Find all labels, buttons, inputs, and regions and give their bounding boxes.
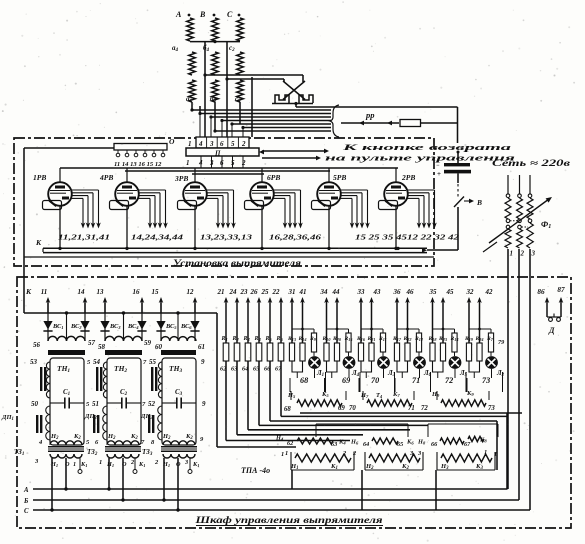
- rheostat arrow: [489, 199, 549, 243]
- svg-text:11: 11: [41, 288, 48, 296]
- svg-text:22: 22: [272, 288, 281, 296]
- coil winding phase C: [237, 18, 244, 41]
- svg-text:2: 2: [130, 459, 134, 466]
- svg-text:1: 1: [285, 450, 288, 457]
- wire bundle 5: [232, 123, 331, 125]
- svg-text:Н6: Н6: [350, 439, 359, 446]
- svg-text:ВС4: ВС4: [127, 323, 139, 330]
- relay coil H3 K3: [436, 452, 438, 470]
- transformer ТН3 body: [162, 358, 196, 445]
- svg-text:69: 69: [338, 405, 345, 412]
- svg-text:68: 68: [300, 376, 308, 385]
- svg-text:К: К: [25, 287, 32, 296]
- tube 2РВ: [384, 168, 408, 249]
- arrows group transformers: [47, 300, 49, 313]
- rheostat F1 mid terminals: [506, 219, 510, 223]
- wire relay right 2: [496, 421, 498, 470]
- resistor tall R<tspan font-size="5.0" baseline-shift="-18%">14</tspan>: [452, 333, 457, 352]
- wire bundle 6: [243, 127, 331, 129]
- svg-text:5РВ: 5РВ: [333, 173, 346, 182]
- lamp Л3: [382, 352, 384, 356]
- secondary coil TH2: [105, 336, 142, 341]
- arrows channel 6: [468, 300, 470, 343]
- resistor R<tspan font-size="5.0" baseline-shift="-18%">24</tspan>: [477, 343, 482, 361]
- svg-text:R14: R14: [450, 336, 459, 342]
- bus line C: [33, 509, 530, 511]
- coil ТЗ3: [163, 454, 195, 458]
- center tap stubs: [66, 313, 68, 341]
- svg-text:73: 73: [488, 405, 495, 412]
- svg-text:Шкаф управления выпрямителя: Шкаф управления выпрямителя: [194, 515, 382, 526]
- socket 1РВ: [43, 201, 62, 210]
- coil c3: [237, 80, 244, 102]
- svg-text:14,24,34,44: 14,24,34,44: [131, 233, 183, 242]
- wire switch down: [457, 207, 459, 250]
- resistor PP box: [400, 120, 421, 127]
- svg-text:К4: К4: [338, 439, 346, 446]
- wire vertical c to strip: [226, 42, 228, 137]
- svg-text:65: 65: [397, 441, 403, 448]
- wire bundle stub c: [239, 102, 241, 124]
- svg-text:25: 25: [261, 288, 270, 296]
- svg-text:К: К: [35, 238, 42, 247]
- resistor R<tspan font-size="5.0" baseline-shift="-18%">16</tspan>: [358, 343, 363, 361]
- top link channel 6: [469, 328, 491, 330]
- tube 5РВ: [317, 168, 341, 249]
- svg-text:2РВ: 2РВ: [401, 173, 415, 182]
- svg-text:67: 67: [464, 441, 471, 448]
- svg-text:13: 13: [97, 288, 105, 296]
- svg-text:6: 6: [220, 140, 224, 148]
- svg-text:26: 26: [250, 288, 259, 296]
- rheostat F1 lower resistors: [505, 229, 511, 248]
- svg-text:ТПА -4о: ТПА -4о: [241, 466, 270, 475]
- resistor R<tspan font-size="5.0" baseline-shift="-18%">19</tspan>: [466, 343, 471, 361]
- core bar TH3 top: [161, 350, 196, 355]
- top link channel 1: [292, 328, 314, 330]
- arrow terminal 2x 3: [247, 300, 249, 343]
- coil ТЗ2: [107, 454, 139, 458]
- wire bundle 2: [200, 113, 331, 115]
- resistor R1: [223, 343, 229, 361]
- bottom bracket channel 1: [292, 361, 303, 372]
- wire rail link: [196, 312, 217, 314]
- transformer ТН2 body: [107, 358, 141, 445]
- svg-text:70: 70: [371, 376, 379, 385]
- socket 5РВ: [312, 201, 331, 210]
- svg-text:71: 71: [408, 405, 415, 412]
- transformer ТЗ3 core: [161, 446, 197, 452]
- svg-text:13,23,33,13: 13,23,33,13: [200, 233, 252, 242]
- svg-text:86: 86: [537, 288, 545, 296]
- wires ТЗ to bus: [51, 458, 53, 510]
- wire capacitor to switch: [457, 173, 459, 183]
- arrows channel 5: [432, 300, 434, 343]
- svg-text:57: 57: [88, 339, 96, 347]
- svg-text:41: 41: [299, 288, 307, 296]
- resistor R4: [256, 343, 262, 361]
- svg-text:R7: R7: [486, 336, 494, 342]
- svg-text:R17: R17: [392, 336, 402, 342]
- top link channel 4: [397, 328, 419, 330]
- svg-text:К6: К6: [406, 439, 414, 446]
- bus bar cathode: [43, 247, 427, 249]
- wire to return button 1: [262, 150, 326, 152]
- wire top connector: [190, 41, 240, 43]
- svg-text:1РВ: 1РВ: [33, 173, 46, 182]
- svg-text:К7: К7: [392, 391, 400, 398]
- svg-text:R15: R15: [344, 336, 353, 342]
- arrows channel 3: [360, 300, 362, 343]
- svg-text:Сеть ≈ 220в: Сеть ≈ 220в: [492, 158, 570, 168]
- svg-text:ВС5: ВС5: [165, 323, 177, 330]
- svg-text:Н1: Н1: [50, 461, 58, 468]
- lamp Л2: [490, 352, 492, 356]
- svg-text:72: 72: [421, 405, 428, 412]
- svg-text:46: 46: [406, 288, 415, 296]
- svg-text:Н9: Н9: [431, 391, 440, 398]
- core bar TH2 top: [105, 350, 142, 355]
- resistor R5: [267, 343, 273, 361]
- svg-text:В: В: [199, 10, 206, 19]
- svg-text:45: 45: [446, 288, 455, 296]
- svg-text:2: 2: [520, 250, 525, 258]
- switch V: [454, 197, 464, 208]
- svg-text:43: 43: [373, 288, 382, 296]
- svg-text:68: 68: [284, 406, 291, 413]
- arrow terminal 2x 4: [258, 300, 260, 343]
- transformer ТЗ1 core: [48, 446, 84, 452]
- relay coil H2 K2: [364, 452, 366, 470]
- socket 3РВ: [178, 201, 197, 210]
- wire relay stub left: [291, 470, 293, 489]
- svg-text:R10: R10: [322, 336, 332, 342]
- svg-text:ВС3: ВС3: [109, 323, 121, 330]
- svg-text:54: 54: [93, 358, 101, 366]
- svg-text:ВС2: ВС2: [70, 323, 82, 330]
- core TH2: [96, 367, 98, 391]
- coil winding phase B: [212, 18, 219, 41]
- svg-text:рр: рр: [365, 110, 375, 120]
- anode wires 3РВ: [206, 190, 236, 229]
- wire to contactor upper: [205, 74, 303, 76]
- top link channel 3: [361, 328, 383, 330]
- tube 4РВ: [115, 168, 139, 249]
- svg-text:С: С: [24, 508, 29, 515]
- svg-text:А: А: [175, 10, 182, 19]
- dashed box control cabinet: [17, 277, 571, 528]
- wire F1 down 2: [518, 249, 520, 500]
- svg-text:50: 50: [31, 400, 39, 408]
- relay coil H1 K1: [290, 452, 292, 470]
- socket 6РВ: [245, 201, 264, 210]
- wire to return button 2: [262, 157, 318, 159]
- secondary coil TH1: [48, 336, 85, 341]
- svg-text:R11: R11: [378, 336, 387, 342]
- wire anode bus: [24, 312, 196, 314]
- svg-text:на пульте управления: на пульте управления: [325, 153, 516, 163]
- svg-text:1: 1: [281, 451, 284, 458]
- svg-text:11 14 13 16 15 12: 11 14 13 16 15 12: [114, 161, 162, 168]
- svg-text:−: −: [436, 163, 440, 169]
- rail tubes 1: [60, 167, 398, 169]
- svg-text:R5: R5: [265, 336, 273, 342]
- svg-text:14: 14: [78, 288, 86, 296]
- svg-text:6РВ: 6РВ: [267, 173, 280, 182]
- svg-text:R20: R20: [332, 336, 342, 342]
- svg-text:Н7: Н7: [360, 392, 369, 399]
- svg-text:К1: К1: [80, 461, 87, 468]
- coil ТЗ1: [50, 454, 82, 458]
- coil b4: [212, 52, 219, 75]
- svg-text:42: 42: [485, 288, 494, 296]
- svg-text:3: 3: [209, 140, 214, 148]
- svg-text:Д: Д: [548, 326, 555, 335]
- svg-text:В: В: [476, 198, 482, 207]
- arrow terminal 2x 5: [269, 300, 271, 343]
- diode ВС3: [104, 303, 106, 341]
- wire F1 down 3: [529, 249, 531, 510]
- svg-text:21: 21: [217, 288, 225, 296]
- svg-text:55: 55: [149, 358, 157, 366]
- wire relay right: [506, 413, 508, 489]
- svg-text:87: 87: [557, 286, 565, 294]
- secondary coil TH3: [161, 337, 196, 341]
- bottom bracket channel 2: [327, 361, 338, 372]
- svg-text:4: 4: [198, 140, 203, 148]
- svg-text:31: 31: [288, 288, 296, 296]
- wire relay net top: [300, 412, 522, 414]
- svg-text:79: 79: [498, 339, 504, 346]
- resistor R<tspan font-size="5.0" baseline-shift="-18%">17</tspan>: [394, 343, 399, 361]
- wire bus to switch: [427, 249, 458, 251]
- svg-text:35: 35: [429, 288, 438, 296]
- wires P cells down: [200, 156, 202, 168]
- arrow terminal 2x 1: [225, 300, 227, 343]
- wire vertical b to strip: [204, 42, 206, 137]
- wire to contactor lower: [227, 78, 284, 80]
- svg-text:4РВ: 4РВ: [99, 173, 113, 182]
- top link channel 2: [327, 328, 349, 330]
- anode wires 6РВ: [273, 190, 303, 229]
- arrows channel 1: [291, 300, 293, 343]
- dashed box rectifier unit: [14, 138, 434, 266]
- svg-text:66: 66: [431, 441, 438, 448]
- wire capacitor feed: [457, 107, 459, 143]
- relay net box 2: [428, 423, 498, 425]
- svg-text:16: 16: [133, 288, 141, 296]
- svg-text:15: 15: [152, 288, 160, 296]
- wire relay down 2: [435, 470, 437, 510]
- svg-text:R3: R3: [243, 336, 251, 342]
- svg-text:11,21,31,41: 11,21,31,41: [58, 233, 110, 242]
- diode ВС6: [194, 303, 196, 341]
- svg-text:Н4: Н4: [275, 435, 284, 442]
- svg-text:53: 53: [30, 358, 38, 366]
- terminal circles ТЗ: [79, 458, 81, 470]
- anode wires 1РВ: [71, 190, 101, 229]
- svg-text:56: 56: [33, 341, 41, 349]
- resistor tall R<tspan font-size="5.0" baseline-shift="-18%">11</tspan>: [380, 333, 385, 352]
- resistor R3: [245, 343, 251, 361]
- resistor R2: [234, 343, 240, 361]
- rheostat F1 tap terminals: [506, 225, 510, 229]
- transformer ТЗ2 core: [105, 446, 141, 452]
- svg-text:36: 36: [393, 288, 402, 296]
- wire K left: [23, 148, 25, 313]
- svg-text:R4: R4: [254, 336, 262, 342]
- lamp Л4: [348, 352, 350, 356]
- terminal strip O: [114, 144, 167, 151]
- capacitor С2: [107, 402, 122, 404]
- svg-text:R14: R14: [298, 336, 307, 342]
- svg-text:5: 5: [231, 140, 235, 148]
- resistor R<tspan font-size="5.0" baseline-shift="-18%">14</tspan>: [300, 343, 305, 361]
- coil ТЗ1 primary: [50, 441, 82, 445]
- resistor tall R<tspan font-size="5.0" baseline-shift="-18%">9</tspan>: [311, 333, 316, 352]
- coil a4: [189, 52, 196, 75]
- coil a1: [189, 80, 196, 102]
- resistor R<tspan font-size="5.0" baseline-shift="-18%">13</tspan>: [289, 343, 294, 361]
- svg-text:16,28,36,46: 16,28,36,46: [269, 233, 321, 242]
- svg-text:К1: К1: [138, 461, 145, 468]
- svg-text:Н1: Н1: [162, 461, 170, 468]
- svg-text:R2: R2: [232, 336, 240, 342]
- svg-text:Н8: Н8: [417, 439, 426, 446]
- rheostat F1 wires top: [507, 175, 509, 194]
- svg-text:1: 1: [186, 159, 190, 167]
- svg-text:R21: R21: [367, 336, 376, 342]
- capacitor С3: [162, 402, 177, 404]
- capacitor С1: [50, 402, 65, 404]
- svg-text:73: 73: [482, 376, 490, 385]
- resistor R<tspan font-size="5.0" baseline-shift="-18%">23</tspan>: [440, 343, 445, 361]
- resistor R<tspan font-size="5.0" baseline-shift="-18%">21</tspan>: [369, 343, 374, 361]
- bus line B: [33, 499, 519, 501]
- brace bundle: [330, 105, 339, 137]
- resistor R<tspan font-size="5.0" baseline-shift="-18%">20</tspan>: [334, 343, 339, 361]
- wire contactor to PP loop: [295, 104, 297, 108]
- svg-text:1: 1: [99, 459, 102, 466]
- staircase R2: [236, 361, 238, 435]
- wire vertical right to strip: [251, 77, 253, 137]
- bottom bracket channel 5: [433, 361, 444, 372]
- svg-text:К5: К5: [321, 391, 329, 398]
- svg-text:23: 23: [240, 288, 249, 296]
- svg-text:Б: Б: [23, 498, 29, 505]
- resistor tall R<tspan font-size="5.0" baseline-shift="-18%">7</tspan>: [488, 333, 493, 352]
- terminal strip P cells: [196, 137, 249, 148]
- diode ВС2: [84, 303, 86, 341]
- capacitor C: [444, 163, 470, 166]
- svg-text:9: 9: [201, 358, 205, 366]
- svg-text:59: 59: [144, 339, 152, 347]
- staircase R3: [247, 361, 249, 430]
- svg-text:1: 1: [188, 140, 192, 148]
- coil ТЗ3 primary: [163, 441, 195, 445]
- contactor crossing switch: [283, 81, 305, 100]
- svg-text:R23: R23: [438, 336, 447, 342]
- svg-text:34: 34: [320, 288, 329, 296]
- anode wires 4РВ: [138, 190, 168, 229]
- svg-text:R18: R18: [428, 336, 438, 342]
- resistor tall R<tspan font-size="5.0" baseline-shift="-18%">12</tspan>: [416, 333, 421, 352]
- lamp Л6: [418, 352, 420, 356]
- svg-text:71: 71: [412, 376, 420, 385]
- arrows channel 2: [326, 300, 328, 343]
- wire bundle 1: [192, 109, 331, 111]
- svg-text:9: 9: [202, 400, 206, 408]
- svg-text:ВС6: ВС6: [180, 323, 192, 330]
- svg-text:+: +: [437, 170, 441, 178]
- tube 3РВ: [183, 168, 207, 249]
- svg-text:2: 2: [241, 140, 246, 148]
- resistor R<tspan font-size="5.0" baseline-shift="-18%">10</tspan>: [324, 343, 329, 361]
- svg-text:3: 3: [531, 250, 536, 258]
- svg-text:12: 12: [187, 288, 195, 296]
- staircase R6: [280, 361, 282, 416]
- diode ВС1: [47, 303, 49, 341]
- socket 4РВ: [110, 201, 129, 210]
- bottom bracket channel 3: [361, 361, 372, 372]
- arrow terminal 2x 6: [280, 300, 282, 343]
- svg-text:R9: R9: [309, 336, 317, 342]
- svg-text:24: 24: [229, 288, 238, 296]
- top link channel 5: [433, 328, 455, 330]
- svg-text:R12: R12: [414, 336, 423, 342]
- svg-text:А: А: [23, 487, 29, 494]
- svg-text:69: 69: [342, 376, 350, 385]
- rheostat F1 upper resistors: [505, 198, 511, 219]
- socket 2РВ: [379, 201, 398, 210]
- svg-text:Установка выпрямителя: Установка выпрямителя: [173, 259, 301, 269]
- rail tubes 2: [125, 170, 330, 172]
- resistor R6: [278, 343, 284, 361]
- wire O strip feed: [24, 147, 114, 149]
- svg-text:ВС1: ВС1: [52, 323, 64, 330]
- diode ВС5: [160, 303, 162, 341]
- bottom bracket channel 4: [397, 361, 408, 372]
- arrows channel 4: [396, 300, 398, 343]
- svg-text:61: 61: [198, 343, 205, 351]
- resistor R<tspan font-size="5.0" baseline-shift="-18%">22</tspan>: [405, 343, 410, 361]
- svg-text:51: 51: [92, 400, 99, 408]
- wire bundle 7: [215, 130, 331, 132]
- wire bundle 3: [211, 116, 331, 118]
- core TH1: [40, 367, 42, 391]
- bus line A: [33, 488, 508, 490]
- rheostat arrow small: [483, 242, 497, 252]
- svg-text:1: 1: [73, 461, 76, 468]
- lamp Л5: [454, 352, 456, 356]
- diode ВС4: [141, 303, 143, 341]
- svg-text:12 22 32 42: 12 22 32 42: [407, 233, 459, 242]
- svg-text:С: С: [227, 10, 233, 19]
- core TH3: [151, 367, 153, 391]
- resistor R<tspan font-size="5.0" baseline-shift="-18%">18</tspan>: [430, 343, 435, 361]
- svg-text:R1: R1: [221, 336, 228, 342]
- lamp Л1: [313, 352, 315, 356]
- tube 6РВ: [250, 168, 274, 249]
- svg-text:Н1: Н1: [106, 461, 114, 468]
- svg-text:52: 52: [148, 400, 156, 408]
- svg-text:44: 44: [332, 288, 341, 296]
- core bar TH1 top: [48, 350, 85, 355]
- svg-text:Т4: Т4: [376, 392, 383, 399]
- svg-text:3: 3: [184, 459, 188, 466]
- svg-text:15 25 35 45: 15 25 35 45: [355, 233, 407, 242]
- svg-text:32: 32: [466, 288, 475, 296]
